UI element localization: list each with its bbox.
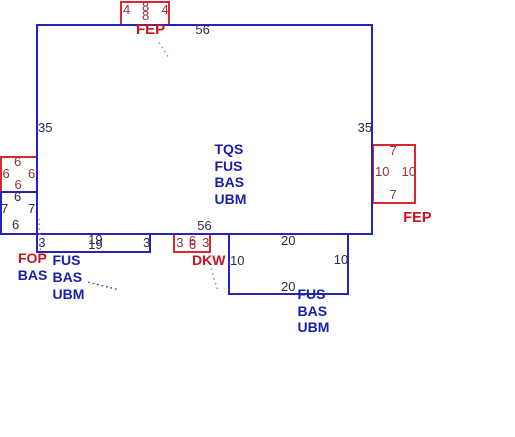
left red porch rectangle 6x6 bbox=[0, 156, 38, 193]
area label FUS/BAS/UBM bottom-right bbox=[298, 286, 330, 337]
dim 8 top (top FEP) bbox=[142, 0, 149, 13]
dim 7 left (left blue porch) bbox=[1, 202, 8, 215]
dim 6 right (left red porch) bbox=[28, 167, 35, 180]
dim 20 top (bottom-right) bbox=[281, 234, 295, 247]
dim 8 bottom (top FEP) bbox=[142, 9, 149, 22]
dim 10 left (right FEP) bbox=[375, 165, 389, 178]
FEP label right bbox=[403, 211, 431, 226]
dim 35 right bbox=[358, 121, 372, 134]
dim 3 left (bottom strip) bbox=[38, 236, 45, 249]
area label FUS/BAS/UBM left bbox=[53, 252, 85, 303]
BAS label under FOP bbox=[18, 268, 48, 282]
bottom-right rectangle 20x10 (FUS/BAS/UBM) bbox=[228, 233, 350, 295]
dim 19 top (bottom strip) bbox=[88, 233, 102, 246]
DKW label bbox=[192, 253, 225, 267]
main building outline 56x35 bbox=[36, 24, 373, 235]
dim 3 right (DKW) bbox=[202, 236, 209, 249]
dim 56 bottom bbox=[197, 219, 211, 232]
dim 6 top (left blue porch) bbox=[14, 190, 21, 203]
dim 10 right (right FEP) bbox=[402, 165, 416, 178]
left blue porch rectangle 6x7 (FOP) bbox=[0, 191, 38, 235]
dim 7 bottom (right FEP) bbox=[390, 188, 397, 201]
dim 10 right (bottom-right) bbox=[334, 253, 348, 266]
leader from UBM left label bbox=[88, 282, 119, 290]
leader from FEP top label bbox=[159, 43, 169, 59]
right FEP porch rectangle 7x10 bbox=[372, 144, 416, 204]
FEP label top bbox=[136, 22, 165, 37]
leader from FOP label bbox=[39, 219, 41, 250]
dim 20 bottom (bottom-right) bbox=[281, 280, 295, 293]
leader from DKW label bbox=[211, 268, 218, 290]
bottom strip 19x3 (FUS/BAS/UBM) bbox=[36, 233, 151, 253]
dim 4 right (top FEP) bbox=[162, 3, 169, 16]
dim 35 left bbox=[38, 121, 52, 134]
dim 10 left (bottom-right) bbox=[230, 254, 244, 267]
DKW rectangle 6x3 bbox=[173, 233, 211, 253]
FOP label bbox=[18, 251, 47, 265]
dim 7 top (right FEP) bbox=[390, 144, 397, 157]
top FEP porch rectangle bbox=[120, 1, 170, 26]
dim 19 bottom (bottom strip) bbox=[88, 238, 102, 251]
area label TQS/FUS/BAS/UBM center bbox=[215, 141, 247, 207]
dim 3 right (bottom strip) bbox=[143, 236, 150, 249]
dim 6 top (left red porch) bbox=[14, 155, 21, 168]
dim 6 top (DKW) bbox=[189, 234, 196, 247]
dim 6 bottom (left blue porch) bbox=[12, 218, 19, 231]
dim 4 left (top FEP) bbox=[123, 3, 130, 16]
dim 3 left (DKW) bbox=[176, 236, 183, 249]
dim 56 top bbox=[195, 23, 209, 36]
dim 6 left (left red porch) bbox=[3, 167, 10, 180]
dim 6 bottom (left red porch) bbox=[15, 178, 22, 191]
dim 6 bottom (DKW) bbox=[189, 238, 196, 251]
dim 7 right (left blue porch) bbox=[28, 202, 35, 215]
